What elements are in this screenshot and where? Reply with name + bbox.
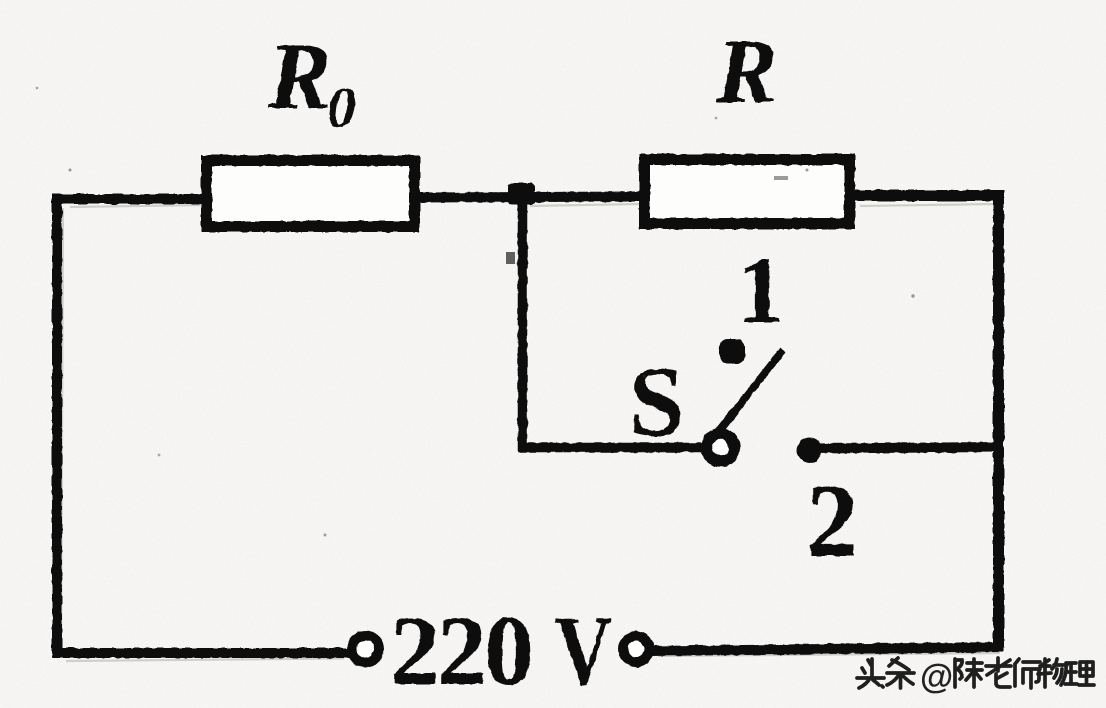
svg-text:S: S <box>629 346 685 457</box>
svg-text:1: 1 <box>737 237 785 343</box>
svg-text:2: 2 <box>806 462 859 579</box>
svg-text:R: R <box>715 20 777 122</box>
svg-text:R: R <box>267 23 331 129</box>
svg-text:0: 0 <box>327 75 356 140</box>
svg-text:220: 220 <box>390 595 531 706</box>
svg-text:V: V <box>555 595 612 706</box>
svg-text:@: @ <box>920 658 953 696</box>
